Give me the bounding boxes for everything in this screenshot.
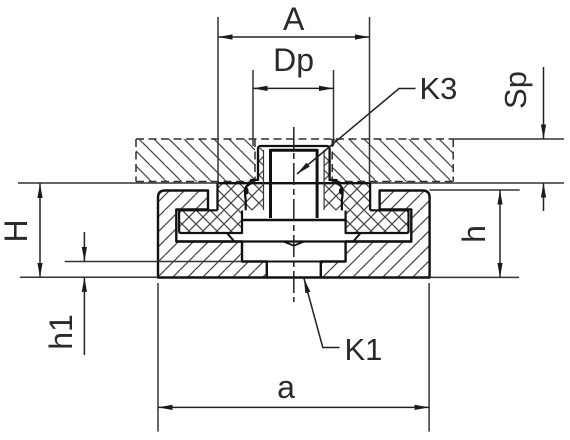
dimension A line: [218, 36, 370, 38]
dimension Sp line upper: [543, 67, 545, 139]
washer chamfer left: [227, 233, 234, 242]
svg-text:A: A: [283, 1, 305, 37]
H bottom extension line: [20, 276, 158, 278]
O-ring bead left: [245, 184, 251, 211]
dimension h1 extension line: [65, 261, 242, 263]
clamping nut flange left (cross hatched): [179, 210, 242, 233]
dimension h1 lower arrow: [83, 277, 85, 355]
boss column left (cross hatched): [218, 183, 264, 210]
plate (phantom workpiece plate, hatched): [136, 139, 453, 182]
svg-text:K1: K1: [345, 332, 383, 367]
svg-text:a: a: [277, 369, 295, 405]
plate top extension line (Sp top reference): [453, 138, 564, 140]
center chevron on floor line: [284, 242, 305, 246]
dimension H line: [39, 184, 41, 278]
body (clamping pot, right section half): [321, 191, 430, 278]
dimension h line: [499, 190, 501, 277]
dimension h extension lines: [430, 190, 520, 277]
dimension Dp line: [253, 87, 334, 89]
dimension Dp extension lines: [253, 70, 334, 146]
centerline: [293, 127, 295, 302]
washer edge right: [353, 233, 360, 242]
pocket floor line: [176, 240, 411, 242]
dimension a extension lines: [158, 283, 429, 432]
flange outline: [179, 210, 408, 233]
svg-text:H: H: [0, 219, 34, 242]
boss collar walls (cross hatched slivers): [258, 148, 330, 180]
lower bore step edge: [267, 261, 321, 263]
svg-text:Sp: Sp: [498, 71, 533, 109]
svg-text:h1: h1: [43, 314, 79, 350]
svg-text:Dp: Dp: [273, 42, 314, 78]
washer top line: [242, 219, 346, 221]
O-ring bead right: [337, 184, 343, 211]
leader K3: [297, 89, 416, 175]
body (clamping pot, left section half): [158, 191, 267, 278]
seating surface reference line: [18, 182, 564, 184]
screw K3 thread lines (thin): [264, 150, 325, 210]
svg-text:h: h: [456, 225, 492, 243]
boss column right (cross hatched): [324, 183, 370, 210]
dimension Sp line lower: [543, 183, 545, 211]
bottom face line across the bore opening: [267, 276, 321, 278]
svg-text:K3: K3: [420, 71, 458, 106]
screw K3 shank: [271, 149, 318, 218]
dimension A extension lines: [218, 17, 370, 183]
dimension a line: [158, 406, 429, 408]
clamping nut flange right (cross hatched): [346, 210, 409, 233]
leader K1: [304, 279, 340, 348]
boss outline (collar and cap): [218, 146, 371, 210]
dimension h1 upper arrow: [83, 232, 85, 262]
